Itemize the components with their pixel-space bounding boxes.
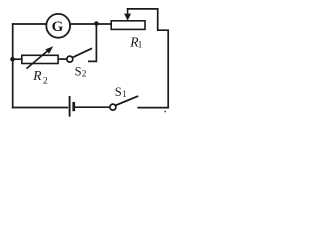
- svg-text:R: R: [32, 68, 42, 83]
- svg-text:2: 2: [43, 76, 48, 87]
- svg-text:S: S: [75, 65, 82, 79]
- svg-text:G: G: [52, 19, 64, 35]
- svg-text:S: S: [115, 85, 122, 99]
- svg-text:1: 1: [122, 89, 127, 99]
- svg-text:2: 2: [82, 69, 87, 79]
- svg-text:1: 1: [138, 40, 143, 50]
